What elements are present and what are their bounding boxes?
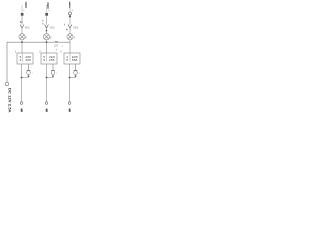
node: channel 2 pre-lamp dot — [46, 30, 48, 32]
fuse F1 — [21, 13, 24, 16]
net label top of channel 2 — [46, 2, 49, 8]
wire: U2 pin 2 (left) down — [46, 64, 48, 78]
wire: input rail down — [6, 42, 8, 82]
fuse F3 — [69, 12, 72, 15]
svg-text:388: 388 — [25, 58, 31, 62]
capacitor C2 (electrolytic) — [51, 70, 55, 74]
node: C3 negative lead dot — [75, 75, 77, 77]
node: below fuse F3 — [69, 15, 71, 17]
current arrow channel 3 — [68, 25, 72, 28]
wire: channel 2 lamp to box — [46, 40, 48, 53]
IC U3 — [64, 53, 80, 64]
U3 internal pin line — [69, 53, 71, 62]
fuse F2 — [45, 13, 48, 16]
wire: channel 3 below fuse — [69, 16, 71, 25]
wire: U1 pin 2 (left) down — [21, 64, 23, 78]
wire: U2 pin 3 (right) down — [52, 64, 54, 70]
wire: channel 2 arrow to lamp — [46, 28, 48, 34]
wire: channel 2 below fuse — [46, 16, 48, 25]
indicator lamp HL2 — [43, 34, 49, 40]
capacitor C3 (electrolytic) — [74, 70, 78, 74]
capacitor C1 (electrolytic) — [27, 70, 31, 74]
U1 internal pin line — [22, 54, 24, 62]
bus net name segment — [55, 41, 58, 43]
wire: channel 3 down to terminal — [69, 78, 71, 102]
U2 internal pin line — [46, 53, 48, 62]
IC U1 — [17, 53, 33, 64]
wire: channel 1 top feed — [21, 5, 23, 13]
wire: channel 3 arrow to lamp — [69, 28, 71, 34]
wire: channel 1 lamp to box — [21, 40, 23, 53]
annotation tick left of HL3 — [66, 29, 67, 30]
wire: supply bus — [7, 41, 70, 43]
svg-text:DC 12V 2.5A: DC 12V 2.5A — [7, 88, 12, 113]
net label top of channel 3 — [69, 2, 72, 8]
svg-text:VD1: VD1 — [25, 26, 30, 29]
net label top of channel 1 — [24, 2, 27, 8]
wire: channel 2 top feed — [46, 5, 48, 13]
J3 label — [69, 108, 71, 110]
current arrow channel 2 — [45, 25, 49, 28]
J1 label — [21, 108, 23, 110]
current arrow channel 1 — [20, 25, 24, 28]
svg-text:888: 888 — [72, 58, 78, 62]
terminal J4 (DC input) — [5, 82, 8, 85]
wire: channel 3 top feed — [69, 5, 71, 13]
svg-text:12V: 12V — [54, 45, 59, 48]
wire: C1 bottom to junction — [22, 75, 29, 77]
svg-text:288: 288 — [49, 58, 55, 62]
terminal J1 — [20, 102, 23, 105]
wire: channel 1 down to terminal — [21, 78, 23, 102]
node: channel 3 output junction — [69, 77, 71, 79]
node: channel 1 output junction — [21, 77, 23, 79]
terminal J2 — [45, 102, 48, 105]
wire: U3 pin 2 (left) down — [69, 64, 71, 78]
wire: U1 pin 3 (right) down — [28, 64, 30, 70]
svg-text:VD3: VD3 — [73, 26, 78, 29]
indicator lamp HL3 — [67, 34, 73, 40]
wire: C3 bottom to junction — [70, 75, 76, 77]
wire: C2 bottom to junction — [47, 75, 54, 77]
node: C1 negative lead dot — [28, 75, 30, 77]
wire: U3 pin 3 (right) down — [75, 64, 77, 70]
svg-text:VD2: VD2 — [50, 26, 55, 29]
wire: channel 3 lamp to box — [69, 40, 71, 53]
node: channel 2 output junction — [46, 77, 48, 79]
node: bus junction channel 2 — [46, 41, 48, 43]
indicator lamp HL1 — [19, 34, 25, 40]
terminal J3 — [68, 102, 71, 105]
node: bus junction channel 1 — [21, 41, 23, 43]
wire: channel 1 arrow to lamp — [21, 28, 23, 34]
wire: channel 1 below fuse — [21, 16, 23, 25]
J2 label — [46, 108, 48, 110]
wire: channel 2 down to terminal — [46, 78, 48, 102]
node: C2 negative lead dot — [52, 75, 54, 77]
IC U2 — [41, 53, 57, 64]
